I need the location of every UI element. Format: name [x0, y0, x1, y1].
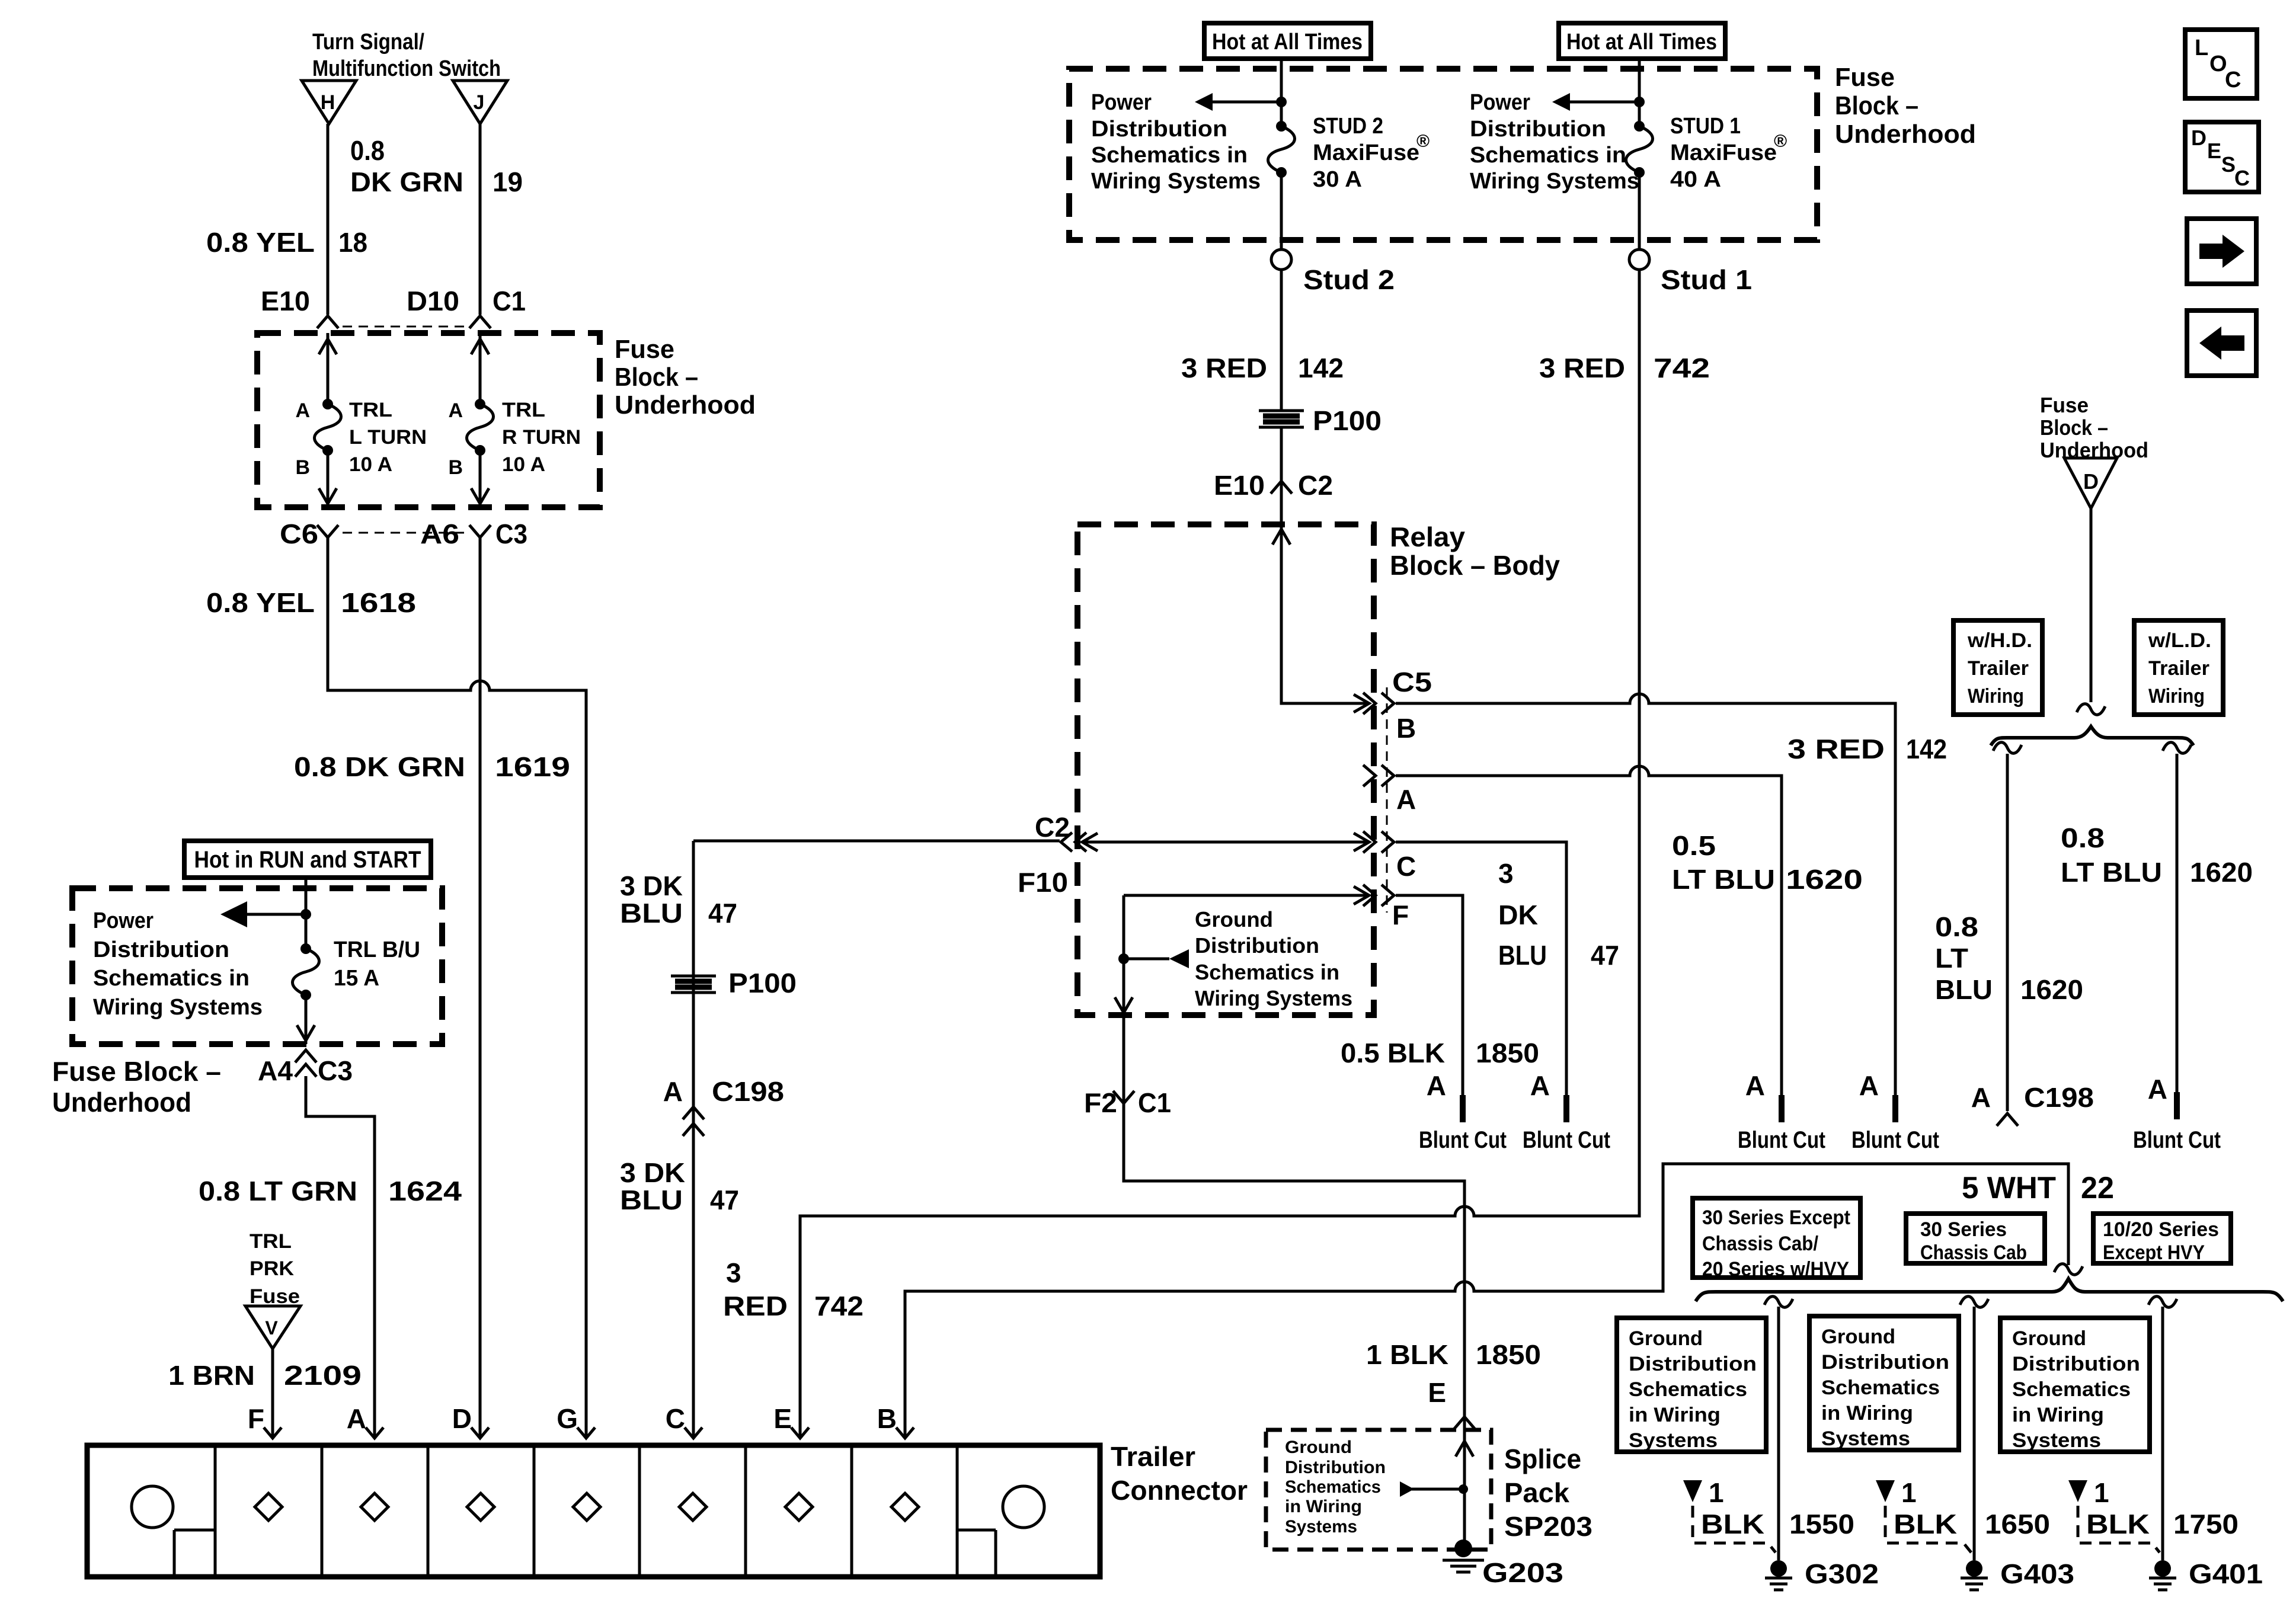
label 1 BRN 2109	[168, 1360, 362, 1391]
svg-text:C: C	[2225, 68, 2241, 92]
svg-text:A: A	[2148, 1074, 2167, 1105]
connector D (fuse block)	[2064, 458, 2117, 508]
svg-text:Distribution: Distribution	[1470, 117, 1606, 142]
wire ground drop G403	[1960, 1297, 1988, 1560]
svg-text:D: D	[2083, 469, 2099, 494]
label 1 BLK 1850	[1366, 1339, 1541, 1370]
svg-text:B: B	[448, 456, 463, 479]
junction	[1276, 97, 1287, 107]
fuse block underhood box (maxifuses)	[1069, 69, 1817, 240]
svg-text:Schematics: Schematics	[2012, 1378, 2131, 1401]
svg-text:3: 3	[726, 1257, 741, 1288]
svg-text:A: A	[1396, 784, 1416, 815]
wire LD option (0.8 LT BLU 1620)	[2163, 742, 2191, 1092]
trailer connector cavity diamond	[573, 1493, 600, 1521]
svg-text:Fuse: Fuse	[615, 335, 674, 364]
pin A4/C3	[258, 1050, 353, 1086]
label 0.8 DK GRN 1619	[294, 751, 570, 782]
svg-text:Relay: Relay	[1390, 521, 1465, 552]
svg-text:1620: 1620	[1786, 864, 1863, 895]
svg-text:H: H	[321, 91, 335, 114]
label STUD 2 MaxiFuse 30 A	[1313, 114, 1430, 192]
fuse TRL R TURN 10A	[467, 399, 494, 456]
ground G403	[1961, 1558, 2074, 1590]
svg-text:Wiring Systems: Wiring Systems	[1470, 169, 1639, 194]
label Splice Pack SP203	[1504, 1443, 1593, 1542]
svg-text:TRL: TRL	[250, 1230, 292, 1253]
svg-text:BLK: BLK	[1701, 1509, 1764, 1539]
svg-text:Schematics: Schematics	[1821, 1377, 1940, 1399]
svg-text:47: 47	[1591, 940, 1619, 971]
svg-text:V: V	[265, 1317, 278, 1339]
label 10/20 Series Except HVY box	[2093, 1214, 2231, 1264]
svg-text:D: D	[452, 1403, 472, 1434]
wire P100 to E10	[1280, 428, 1283, 524]
svg-text:40 A: 40 A	[1670, 167, 1721, 192]
svg-text:10/20 Series: 10/20 Series	[2103, 1218, 2219, 1241]
svg-text:®: ®	[1416, 132, 1430, 151]
trailer connector divider	[744, 1445, 747, 1577]
fuse STUD 2 MaxiFuse 30A	[1268, 121, 1295, 178]
wire E10/C2 to C5 inside relay	[1272, 524, 1369, 712]
svg-text:in Wiring: in Wiring	[2012, 1404, 2104, 1426]
svg-text:Wiring Systems: Wiring Systems	[1091, 169, 1261, 194]
label Power Distribution Schematics in Wiring Systems	[93, 908, 263, 1020]
pin C	[1363, 831, 1416, 882]
svg-text:P100: P100	[728, 968, 797, 998]
svg-text:Distribution: Distribution	[1091, 117, 1227, 142]
pin C5/B	[1363, 667, 1432, 744]
trailer pin C	[666, 1403, 702, 1438]
trailer pin A	[347, 1403, 383, 1438]
svg-text:5 WHT: 5 WHT	[1962, 1171, 2056, 1205]
trailer connector divider	[321, 1445, 324, 1577]
pin A6/C3	[420, 518, 527, 549]
relay block body box	[1077, 524, 1374, 1015]
label Ground Distribution Schematics in Wiring Systems box	[1617, 1318, 1766, 1452]
svg-text:BLU: BLU	[620, 898, 683, 929]
svg-text:1620: 1620	[2020, 974, 2083, 1005]
svg-text:0.8 DK GRN: 0.8 DK GRN	[294, 751, 465, 782]
label 5 WHT 22	[1962, 1171, 2114, 1205]
svg-text:A: A	[347, 1403, 366, 1434]
svg-text:F2: F2	[1084, 1087, 1117, 1118]
svg-text:Blunt Cut: Blunt Cut	[1523, 1127, 1610, 1153]
svg-text:1624: 1624	[388, 1176, 462, 1206]
trailer connector cavity diamond	[467, 1493, 494, 1521]
wire A4/C3 to trailer pin A	[306, 1076, 375, 1436]
label 0.8 LT GRN 1624	[199, 1176, 462, 1206]
svg-text:B: B	[295, 456, 310, 479]
svg-text:TRL: TRL	[349, 399, 392, 421]
ground distribution arrow	[1124, 949, 1189, 968]
svg-text:Schematics in: Schematics in	[93, 966, 250, 991]
junction	[1459, 1484, 1468, 1494]
svg-text:Wiring Systems: Wiring Systems	[1195, 986, 1352, 1010]
junction	[300, 909, 311, 920]
svg-text:Block – Body: Block – Body	[1390, 550, 1560, 581]
svg-text:Block –: Block –	[615, 363, 698, 392]
label 0.5 LT BLU 1620	[1672, 830, 1863, 895]
label w/H.D. Trailer Wiring box	[1953, 620, 2042, 715]
pin A/C198 (HD)	[1971, 1082, 2094, 1126]
svg-text:10 A: 10 A	[502, 453, 545, 476]
svg-text:F: F	[1392, 900, 1409, 930]
terminal blunt cut	[1523, 1070, 1610, 1153]
svg-text:142: 142	[1906, 734, 1947, 764]
svg-text:Turn Signal/: Turn Signal/	[312, 30, 424, 55]
junction	[1118, 953, 1129, 964]
connector face line	[1386, 687, 1388, 913]
svg-text:Chassis Cab/: Chassis Cab/	[1702, 1233, 1819, 1255]
svg-text:C1: C1	[1138, 1087, 1171, 1118]
svg-text:Power: Power	[1470, 90, 1530, 115]
svg-text:Except HVY: Except HVY	[2103, 1241, 2205, 1264]
label 0.5 BLK 1850	[1341, 1038, 1539, 1068]
svg-text:C: C	[666, 1403, 685, 1434]
svg-text:C2: C2	[1298, 470, 1333, 501]
svg-text:1650: 1650	[1985, 1509, 2050, 1539]
svg-text:Distribution: Distribution	[1285, 1458, 1386, 1477]
svg-text:TRL B/U: TRL B/U	[334, 937, 420, 962]
svg-text:LT BLU: LT BLU	[1672, 864, 1775, 895]
wire V to trailer pin F	[271, 1349, 274, 1436]
svg-text:D: D	[2191, 126, 2207, 150]
svg-text:19: 19	[493, 167, 523, 197]
svg-text:Fuse: Fuse	[1835, 63, 1895, 92]
svg-text:F: F	[248, 1403, 264, 1434]
svg-text:Ground: Ground	[1285, 1438, 1352, 1457]
svg-text:1 BRN: 1 BRN	[168, 1360, 255, 1391]
svg-text:1: 1	[1901, 1477, 1917, 1508]
label 0.8 DK GRN 19	[350, 135, 523, 197]
svg-text:LT BLU: LT BLU	[2061, 857, 2162, 888]
svg-text:C198: C198	[2024, 1082, 2094, 1113]
wire A6/C3 to trailer pin D	[479, 537, 482, 1436]
svg-text:C: C	[2234, 166, 2250, 190]
trailer pin E	[773, 1403, 809, 1438]
svg-text:3 DK: 3 DK	[620, 870, 683, 901]
svg-text:A: A	[1859, 1070, 1879, 1101]
svg-text:A: A	[1745, 1070, 1765, 1101]
pin A/C198	[663, 1076, 784, 1136]
svg-text:C: C	[1396, 851, 1416, 882]
wire C6 to trailer pin G	[328, 537, 586, 1436]
pin E (splice pack)	[1428, 1377, 1475, 1429]
label 3 DK BLU 47	[1498, 858, 1619, 971]
label Ground Distribution Schematics in Wiring Systems box	[2000, 1318, 2150, 1452]
label 1 BLK 1550	[1683, 1477, 1854, 1553]
svg-text:TRL: TRL	[502, 399, 545, 421]
svg-text:Schematics in: Schematics in	[1470, 143, 1626, 168]
label Power Distribution Schematics in Wiring Systems	[1091, 90, 1261, 194]
label Hot in RUN and START box	[184, 841, 431, 878]
svg-text:E10: E10	[261, 286, 310, 316]
button DESC	[2185, 122, 2259, 192]
pin F2/C1	[1084, 1087, 1171, 1118]
label 30 Series Except Chassis Cab/20 Series w/HVY box	[1693, 1198, 1860, 1281]
label TRL R TURN 10 A	[502, 399, 581, 476]
ground G401	[2149, 1558, 2263, 1590]
svg-text:G302: G302	[1805, 1558, 1879, 1589]
wire into splice pack	[1456, 1415, 1473, 1548]
svg-text:Block –: Block –	[1835, 91, 1918, 120]
svg-text:Stud 2: Stud 2	[1303, 264, 1395, 295]
svg-text:in Wiring: in Wiring	[1285, 1497, 1362, 1516]
trailer connector cavity diamond	[361, 1493, 388, 1521]
svg-text:Systems: Systems	[1285, 1517, 1357, 1537]
svg-text:in Wiring: in Wiring	[1821, 1402, 1913, 1425]
wire into TRL L TURN fuse	[319, 333, 337, 404]
wire from hot in run	[305, 878, 308, 949]
label TRL PRK Fuse	[250, 1230, 300, 1308]
power distribution arrow	[1195, 93, 1281, 111]
label Fuse Block - Underhood (triangle D)	[2040, 393, 2148, 462]
svg-text:30 Series: 30 Series	[1920, 1218, 2007, 1241]
svg-text:0.8 LT GRN: 0.8 LT GRN	[199, 1176, 357, 1206]
svg-text:30 A: 30 A	[1313, 167, 1362, 192]
svg-text:C5: C5	[1392, 667, 1432, 697]
wire from TRL R TURN fuse	[471, 450, 489, 507]
svg-text:Systems: Systems	[2012, 1429, 2101, 1452]
svg-text:1620: 1620	[2190, 857, 2253, 888]
svg-text:Hot at All Times: Hot at All Times	[1566, 30, 1717, 55]
svg-text:0.8 YEL: 0.8 YEL	[206, 587, 315, 618]
svg-text:742: 742	[1654, 353, 1710, 383]
label 3 RED 142	[1181, 353, 1344, 383]
svg-text:MaxiFuse: MaxiFuse	[1670, 140, 1777, 165]
connector P100 (red)	[1259, 405, 1382, 436]
connector H (turn signal switch)	[302, 81, 356, 124]
trailer connector divider	[214, 1445, 217, 1577]
wire ground drop G302	[1764, 1297, 1793, 1560]
label Hot at All Times (stud 2)	[1204, 23, 1371, 59]
svg-text:Splice: Splice	[1504, 1443, 1581, 1474]
terminal blunt cut (LD)	[2133, 1074, 2221, 1153]
label 0.8 LT BLU 1620 (left)	[1935, 911, 2083, 1005]
label 0.8 YEL 18	[206, 227, 367, 258]
wire relay C to blunt cut (3 DK BLU 47)	[1396, 842, 1566, 1095]
svg-text:Blunt Cut: Blunt Cut	[1419, 1127, 1507, 1153]
svg-text:E: E	[2207, 139, 2221, 163]
svg-text:Power: Power	[1091, 90, 1152, 115]
svg-text:142: 142	[1298, 353, 1344, 383]
wire from TRL B/U fuse	[297, 995, 315, 1044]
junction	[1634, 97, 1645, 107]
svg-text:MaxiFuse: MaxiFuse	[1313, 140, 1419, 165]
svg-text:Schematics in: Schematics in	[1091, 143, 1248, 168]
terminal blunt cut	[1738, 1070, 1825, 1153]
svg-text:w/H.D.: w/H.D.	[1967, 629, 2032, 652]
svg-text:15 A: 15 A	[334, 966, 379, 991]
svg-text:1550: 1550	[1789, 1509, 1854, 1539]
label Fuse Block - Underhood (left)	[52, 1056, 221, 1118]
svg-text:0.8 YEL: 0.8 YEL	[206, 227, 315, 258]
trailer connector divider	[638, 1445, 641, 1577]
svg-text:Systems: Systems	[1821, 1427, 1910, 1450]
svg-text:1850: 1850	[1476, 1038, 1539, 1068]
pin C6	[280, 518, 338, 549]
svg-text:Ground: Ground	[1629, 1327, 1703, 1350]
wire D to brace	[2077, 508, 2105, 715]
svg-text:Distribution: Distribution	[2012, 1353, 2140, 1375]
pin C2/F10	[1018, 812, 1086, 898]
svg-text:Blunt Cut: Blunt Cut	[1738, 1127, 1825, 1153]
svg-text:Stud 1: Stud 1	[1661, 264, 1752, 295]
wire stud2 fuse to stud	[1280, 172, 1283, 249]
trailer connector cavity diamond	[679, 1493, 706, 1521]
trailer connector left cavity	[132, 1486, 215, 1577]
svg-text:Underhood: Underhood	[1835, 120, 1976, 149]
svg-text:0.5 BLK: 0.5 BLK	[1341, 1038, 1445, 1068]
svg-text:C2: C2	[1035, 812, 1070, 843]
svg-text:Ground: Ground	[1195, 907, 1273, 932]
svg-text:Distribution: Distribution	[1195, 933, 1319, 958]
svg-text:G401: G401	[2189, 1558, 2263, 1589]
label Ground Distribution Schematics in Wiring Systems	[1195, 907, 1352, 1010]
terminal Stud 2	[1271, 249, 1395, 295]
svg-text:Chassis Cab: Chassis Cab	[1920, 1241, 2027, 1264]
svg-text:A: A	[448, 399, 463, 422]
label w/L.D. Trailer Wiring box	[2134, 620, 2223, 715]
svg-text:Ground: Ground	[1821, 1326, 1895, 1348]
label Fuse Block - Underhood (top right)	[1835, 63, 1976, 149]
pin E10/C2	[1214, 470, 1333, 501]
wire J to D10	[479, 124, 482, 315]
svg-text:2109: 2109	[284, 1360, 362, 1391]
svg-text:C198: C198	[712, 1076, 784, 1107]
svg-text:0.8: 0.8	[2061, 822, 2105, 853]
svg-text:F10: F10	[1018, 867, 1068, 898]
svg-text:C6: C6	[280, 518, 318, 549]
connector interface C1	[343, 326, 465, 328]
svg-text:Wiring: Wiring	[1968, 685, 2024, 708]
pin F	[1363, 885, 1409, 930]
svg-text:E: E	[1428, 1377, 1446, 1408]
svg-text:Underhood: Underhood	[615, 391, 756, 420]
svg-text:RED: RED	[723, 1291, 788, 1321]
svg-text:A: A	[1971, 1082, 1991, 1113]
label 3 DK BLU 47 (lower)	[620, 1157, 739, 1215]
svg-text:PRK: PRK	[250, 1257, 294, 1280]
svg-text:STUD 1: STUD 1	[1670, 114, 1741, 139]
svg-text:L TURN: L TURN	[349, 426, 427, 449]
connector P100 (dk blu)	[671, 968, 797, 998]
terminal blunt cut	[1851, 1070, 1939, 1153]
svg-text:G203: G203	[1482, 1557, 1563, 1588]
svg-text:1: 1	[2094, 1477, 2109, 1508]
svg-text:Hot at All Times: Hot at All Times	[1212, 30, 1363, 55]
trailer connector cavity diamond	[891, 1493, 919, 1521]
wire relay ground internal	[1115, 886, 1369, 1015]
svg-text:Fuse: Fuse	[250, 1285, 300, 1308]
svg-text:3: 3	[1498, 858, 1514, 889]
button next arrow	[2187, 219, 2256, 284]
svg-text:Fuse: Fuse	[2040, 393, 2089, 417]
button previous arrow	[2187, 311, 2256, 376]
svg-text:C3: C3	[495, 518, 527, 549]
svg-text:Wiring: Wiring	[2148, 685, 2205, 708]
ground G302	[1765, 1558, 1879, 1590]
wire F2/C1 to splice pack (1 BLK 1850)	[1124, 1015, 1464, 1415]
svg-text:BLK: BLK	[1894, 1509, 1957, 1539]
label 3 RED 742	[1539, 353, 1710, 383]
wire relay A to blunt cut (0.5 LT BLU 1620)	[1396, 766, 1782, 1095]
svg-text:1750: 1750	[2173, 1509, 2239, 1539]
svg-text:0.8: 0.8	[1935, 911, 1978, 942]
fuse STUD 1 MaxiFuse 40A	[1626, 121, 1653, 178]
svg-text:®: ®	[1774, 132, 1787, 151]
trailer connector divider	[427, 1445, 430, 1577]
svg-text:A: A	[1427, 1070, 1446, 1101]
svg-text:22: 22	[2081, 1171, 2114, 1205]
svg-text:Pack: Pack	[1504, 1477, 1569, 1508]
label 3 RED 142	[1787, 734, 1947, 764]
svg-text:Wiring Systems: Wiring Systems	[93, 995, 263, 1020]
trailer connector divider	[956, 1445, 959, 1577]
svg-text:1: 1	[1709, 1477, 1724, 1508]
svg-text:Blunt Cut: Blunt Cut	[1851, 1127, 1939, 1153]
pin A	[1363, 765, 1416, 815]
label terminal B	[448, 456, 463, 479]
svg-text:47: 47	[710, 1185, 739, 1215]
svg-text:1850: 1850	[1476, 1339, 1541, 1370]
svg-text:1618: 1618	[341, 587, 416, 618]
svg-text:in Wiring: in Wiring	[1629, 1404, 1721, 1426]
svg-text:Schematics: Schematics	[1285, 1477, 1381, 1497]
button LOC	[2185, 30, 2257, 98]
connector J (turn signal switch)	[453, 81, 507, 124]
svg-text:Connector: Connector	[1111, 1475, 1248, 1506]
fuse TRL B/U 15A	[293, 943, 319, 1000]
label Power Distribution Schematics in Wiring Systems	[1470, 90, 1639, 194]
label Hot at All Times (stud 1)	[1559, 23, 1725, 59]
wire stud1 fuse to stud	[1638, 172, 1641, 249]
svg-text:D10: D10	[407, 286, 459, 316]
label 1 BLK 1650	[1876, 1477, 2050, 1553]
power distribution arrow	[220, 901, 306, 927]
wire HD option (0.8 LT BLU 1620)	[1993, 742, 2022, 1111]
svg-text:30 Series Except: 30 Series Except	[1702, 1206, 1850, 1229]
svg-text:10 A: 10 A	[349, 453, 392, 476]
trailer pin G	[557, 1403, 595, 1438]
wire option squiggle	[2054, 1264, 2083, 1275]
svg-text:Trailer: Trailer	[1968, 657, 2029, 680]
svg-text:Schematics: Schematics	[1629, 1378, 1747, 1401]
svg-text:Distribution: Distribution	[1821, 1351, 1949, 1374]
svg-text:B: B	[877, 1403, 897, 1434]
wire H to E10	[327, 124, 330, 315]
trailer pin B	[877, 1403, 914, 1438]
splice pack box	[1266, 1430, 1491, 1550]
svg-text:Fuse Block –: Fuse Block –	[52, 1056, 221, 1087]
label Turn Signal/Multifunction Switch	[312, 30, 501, 81]
svg-text:BLK: BLK	[2086, 1509, 2150, 1539]
label terminal A	[448, 399, 463, 422]
label 1 BLK 1750	[2068, 1477, 2239, 1553]
svg-text:47: 47	[708, 898, 737, 929]
svg-text:DK: DK	[1498, 900, 1538, 930]
svg-text:A6: A6	[420, 518, 459, 549]
wire stud2 to relay block	[1280, 270, 1283, 410]
power distribution arrow	[1552, 93, 1639, 111]
svg-text:Blunt Cut: Blunt Cut	[2133, 1127, 2221, 1153]
wire relay F to blunt cut (0.5 BLK 1850)	[1396, 895, 1463, 1095]
terminal Stud 1	[1629, 249, 1752, 295]
svg-text:A4: A4	[258, 1055, 293, 1086]
svg-text:Systems: Systems	[1629, 1429, 1718, 1452]
svg-text:BLU: BLU	[1498, 940, 1547, 971]
